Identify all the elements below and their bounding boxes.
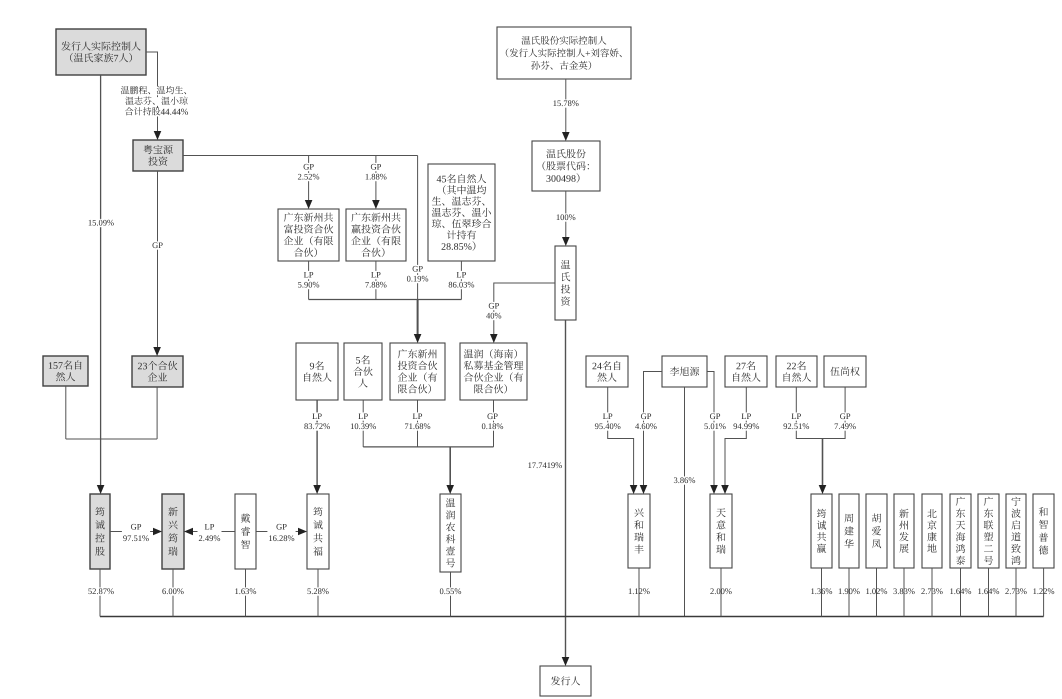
wire 1.12% drop	[638, 568, 640, 617]
label 15.78%	[552, 99, 580, 107]
label 1.12%	[629, 588, 650, 594]
arrow into 共富	[305, 200, 313, 209]
wire merged drop into 广东新州投资	[417, 300, 419, 337]
wire GP0.19% drop	[417, 156, 419, 300]
label LP 5.90%	[303, 271, 315, 279]
wire 1.64% drop	[960, 568, 962, 617]
label 100%	[555, 213, 577, 221]
box 李旭源	[662, 356, 707, 387]
label LP 86.03%	[455, 271, 467, 279]
label 2.73%	[921, 588, 942, 594]
arrow into 温氏股份	[562, 132, 570, 141]
box 温润(海南)私募基金管理合伙企业	[460, 343, 527, 400]
box 兴和瑞丰	[628, 494, 650, 568]
wire GP bus from 粤宝源投资 right	[183, 155, 418, 157]
label 温鹏程温均生温志芬温小琼合计持股44.44%	[120, 87, 194, 96]
arrow into 共赢	[372, 200, 380, 209]
label GP on 粤宝源-23个合伙企业 wire	[151, 241, 164, 249]
box 新兴筠瑞	[162, 494, 184, 569]
wire GP5.01% from 李旭源 to 天意和瑞	[707, 372, 714, 488]
wire LP92.51% from 22名自然人	[796, 387, 822, 439]
label 1.64% b	[978, 588, 999, 594]
arrow into 兴和瑞丰 a	[630, 485, 638, 494]
wire holding-15.09% from 发行人实际控制人 down	[100, 75, 102, 487]
arrow into 天意和瑞 a	[710, 485, 718, 494]
wire 1.22% drop	[1043, 568, 1045, 617]
label LP 83.72%	[311, 412, 323, 420]
box 发行人实际控制人(温氏家族7人)	[56, 29, 146, 75]
wire 1.90% drop	[848, 568, 850, 617]
box 5名合伙人	[344, 343, 382, 400]
box 温氏投资	[555, 246, 576, 320]
label 0.55%	[439, 587, 463, 595]
wire 0.55% drop	[450, 572, 452, 617]
wire LP71.68% from 广东新州投资	[417, 400, 419, 447]
box 广东联塑二号	[978, 494, 999, 568]
wire 2.73% drop	[931, 568, 933, 617]
box 天意和瑞	[710, 494, 732, 568]
wire LP10.39% from 5名合伙人	[362, 400, 364, 447]
label GP 97.51%	[122, 523, 150, 543]
label 15.09%	[87, 219, 115, 227]
wire GP7.49% from 伍尚权	[823, 387, 846, 439]
box 宁波启道致鸿	[1006, 494, 1026, 568]
wire GP from 粤宝源投资 to 23个合伙企业	[157, 171, 159, 349]
label 1.90%	[839, 588, 860, 594]
arrow into 兴和瑞丰 b	[640, 485, 648, 494]
wire merged drop into 温润农科壹号	[449, 447, 451, 487]
box 胡爱凤	[866, 494, 887, 568]
arrow into 新兴筠瑞 left	[153, 528, 162, 536]
label 1.36%	[811, 588, 832, 594]
box 发行人	[540, 666, 591, 696]
arrow into 筠诚共福 top	[313, 485, 321, 494]
label LP 92.51%	[790, 412, 802, 420]
box 广东新州投资合伙企业	[390, 343, 445, 400]
box 新州发展	[894, 494, 914, 568]
wire 5.28% drop	[317, 569, 319, 617]
wire merged drop into 筠诚共赢	[822, 439, 824, 488]
box 23个合伙企业	[132, 356, 183, 387]
label 1.02%	[866, 588, 887, 594]
wire 1.63% drop	[245, 569, 247, 617]
wire 44.44% from 发行人实际控制人 to 粤宝源投资	[146, 52, 158, 133]
label 1.64%	[950, 588, 971, 594]
wire GP97.51% 筠诚控股 to 新兴筠瑞	[110, 531, 155, 533]
wire GP0.18% from 温润海南	[493, 400, 495, 447]
wire LP95.40% from 24名自然人 to 兴和瑞丰	[608, 387, 634, 487]
arrow into 筠诚控股	[97, 485, 105, 494]
label 3.86%	[673, 476, 697, 484]
arrow into 广东新州投资	[414, 334, 422, 343]
arrow into 新兴筠瑞 right	[184, 528, 193, 536]
wire GP4.60% from 李旭源 to 兴和瑞丰	[644, 372, 663, 488]
box 157名自然人	[43, 356, 88, 386]
wire 6.00% drop	[172, 569, 174, 617]
box 和智普德	[1033, 494, 1054, 568]
label LP 7.88%	[370, 271, 382, 279]
arrow into 粤宝源投资	[154, 131, 162, 140]
box 粤宝源投资	[133, 140, 183, 171]
wire 2.00% drop	[720, 568, 722, 617]
wire GP1.88% drop	[375, 156, 377, 203]
wire 2.73% drop b	[1015, 568, 1017, 617]
box 45名自然人	[428, 164, 495, 261]
label 1.63%	[234, 587, 258, 595]
box 9名自然人	[296, 343, 338, 400]
label LP 94.99%	[740, 412, 752, 420]
arrow into 温氏投资	[562, 237, 570, 246]
wire 1.02% drop	[876, 568, 878, 617]
label 1.22%	[1033, 588, 1054, 594]
label GP 40%	[487, 302, 500, 310]
arrow into 筠诚共赢	[819, 485, 827, 494]
box 广东天海鸿泰	[950, 494, 971, 568]
box 筠诚共福	[307, 494, 329, 569]
wire 17.7419% from 温氏投资 to 发行人	[565, 320, 567, 659]
label 17.7419%	[528, 462, 562, 468]
box 27名自然人	[725, 356, 767, 387]
label GP 7.49%	[839, 412, 852, 420]
wire merge horizontal into 筠诚控股	[66, 438, 157, 440]
box 广东新州共赢投资合伙企业	[346, 209, 406, 261]
box 温氏股份(股票代码300498)	[532, 141, 600, 191]
label GP 2.52%	[302, 163, 315, 171]
box 温润农科壹号	[440, 494, 461, 572]
box 筠诚共赢	[811, 494, 832, 568]
label 3.83%	[893, 588, 914, 594]
box 伍尚权	[824, 356, 866, 387]
wire 3.83% drop	[903, 568, 905, 617]
wire LP merge horizontal	[309, 299, 462, 301]
arrow into 天意和瑞 b	[721, 485, 729, 494]
box 温氏股份实际控制人	[497, 27, 631, 79]
arrow into 筠诚共福 left	[298, 528, 307, 536]
wire LP2.49% 戴睿智 to 新兴筠瑞	[191, 531, 235, 533]
label GP 0.19%	[411, 265, 424, 273]
wire GP40% from 温氏投资 to 温润海南	[494, 283, 555, 336]
label 52.87%	[87, 587, 115, 595]
wire LP merge horizontal 2	[363, 446, 493, 448]
wire 57.39% from 157名自然人	[65, 386, 67, 439]
label LP 2.49%	[198, 523, 222, 543]
wire 27.52% from 23个合伙企业	[156, 387, 158, 439]
wire 1.64% drop b	[988, 568, 990, 617]
label 2.00%	[710, 588, 731, 594]
box 广东新州共富投资合伙企业	[278, 209, 339, 261]
wire 15.78% from 温氏股份实际控制人	[565, 79, 567, 134]
label 2.73% b	[1005, 588, 1026, 594]
label GP 4.60%	[640, 412, 653, 420]
wire LP83.72% from 9名自然人 to 筠诚共福	[316, 400, 318, 487]
label 5.28%	[306, 587, 330, 595]
label LP 95.40%	[602, 412, 614, 420]
box 22名自然人	[776, 356, 817, 387]
arrow into 温润农科壹号	[446, 485, 454, 494]
wire 52.87% drop	[99, 569, 101, 617]
label 6.00%	[161, 587, 185, 595]
arrow into 发行人	[562, 657, 570, 666]
wire LP7.88% from 共赢	[375, 261, 377, 300]
box 24名自然人	[586, 356, 628, 387]
wire LP5.90% from 共富	[308, 261, 310, 300]
arrow into 23个合伙企业	[153, 347, 161, 356]
arrow into 温润海南	[490, 334, 498, 343]
label GP 5.01%	[709, 412, 722, 420]
label GP 1.88%	[370, 163, 383, 171]
wire GP16.28% 戴睿智 to 筠诚共福	[256, 531, 300, 533]
wire 3.86% from 李旭源 to bus	[684, 387, 686, 617]
label LP 71.68%	[412, 412, 424, 420]
wire LP86.03% from 45名自然人	[460, 261, 462, 300]
box 周建华	[839, 494, 859, 568]
box 北京康地	[922, 494, 942, 568]
label GP 16.28%	[267, 523, 295, 543]
wire 100% from 温氏股份	[565, 191, 567, 239]
label GP 0.18%	[486, 412, 499, 420]
wire LP94.99% from 27名自然人 to 天意和瑞	[725, 387, 746, 487]
box 筠诚控股	[90, 494, 110, 569]
label LP 10.39%	[357, 412, 369, 420]
wire bus to 发行人	[100, 616, 1044, 618]
wire GP2.52% drop	[308, 156, 310, 203]
wire 1.36% drop	[821, 568, 823, 617]
box 戴睿智	[235, 494, 256, 569]
